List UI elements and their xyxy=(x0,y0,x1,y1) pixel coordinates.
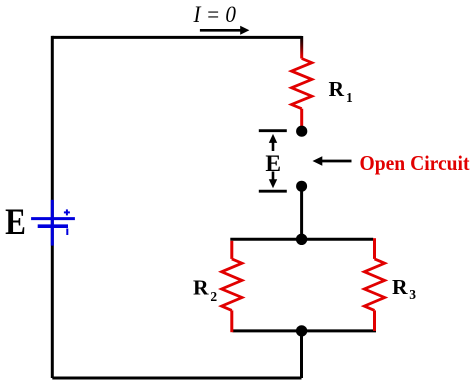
wire: left vertical (battery branch) xyxy=(51,36,54,378)
resistor R2 xyxy=(222,241,242,332)
wire: middle vertical (open-circuit bottom to top junction) xyxy=(300,186,303,239)
svg-text:E: E xyxy=(265,151,281,177)
node: open-circuit top terminal xyxy=(296,126,307,137)
label R3 xyxy=(392,275,416,302)
wire: parallel bottom rail xyxy=(233,329,377,332)
svg-text:I = 0: I = 0 xyxy=(193,2,237,27)
annotation arrow: Open Circuit (pointing left) xyxy=(313,156,352,165)
wire: bottom junction to return wire xyxy=(300,331,303,378)
label R1 xyxy=(329,77,354,105)
battery minus sign xyxy=(66,229,68,236)
open-circuit voltage marker (bars and arrows) xyxy=(259,131,287,192)
wire: top horizontal (battery + to R1) xyxy=(52,36,301,39)
svg-text:3: 3 xyxy=(409,287,416,302)
resistor R1 xyxy=(292,36,312,127)
node: bottom junction xyxy=(296,325,307,336)
resistor R3 xyxy=(364,238,384,331)
svg-text:R: R xyxy=(392,275,408,299)
label R2 xyxy=(193,276,217,305)
node: top junction xyxy=(296,234,307,245)
svg-text:E: E xyxy=(5,201,26,242)
svg-text:Open Circuit: Open Circuit xyxy=(360,151,471,175)
wire: bottom horizontal return xyxy=(52,377,301,380)
battery plus sign xyxy=(64,209,70,215)
svg-text:R: R xyxy=(329,77,345,101)
svg-text:2: 2 xyxy=(210,289,217,304)
svg-text:R: R xyxy=(193,276,209,300)
node: open-circuit bottom terminal xyxy=(296,181,307,192)
battery E (blue symbol) xyxy=(31,200,75,246)
svg-text:1: 1 xyxy=(346,90,353,105)
wire: parallel top rail xyxy=(230,238,373,241)
current arrow (pointing right) xyxy=(200,26,250,35)
